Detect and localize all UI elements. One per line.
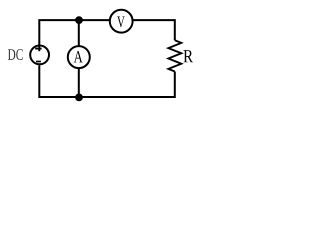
- label R: [184, 50, 194, 62]
- junction dot (top node): [75, 16, 83, 24]
- wire: voltmeter right to top-right corner, down to resistor top: [133, 20, 175, 40]
- wire: ammeter branch bottom (A circle to bottom junction): [78, 69, 80, 98]
- label A (ammeter): [74, 51, 83, 62]
- label DC: [8, 49, 23, 60]
- wire: resistor bottom to bottom-right corner, along bottom to bottom-left corner, up to DC source: [39, 65, 175, 97]
- wire: ammeter branch top (junction to A circle): [78, 20, 80, 46]
- label V (voltmeter): [117, 17, 125, 28]
- resistor R (zigzag): [168, 40, 181, 71]
- junction dot (bottom node): [75, 94, 83, 102]
- ammeter A circle: [68, 46, 90, 68]
- node: top-left corner / left+top wire run: [39, 20, 109, 50]
- voltmeter V circle: [110, 10, 133, 33]
- DC source circle: [30, 46, 49, 65]
- DC source plus terminal (wire overshoot + bar): [35, 44, 41, 51]
- DC source minus bar: [36, 61, 41, 63]
